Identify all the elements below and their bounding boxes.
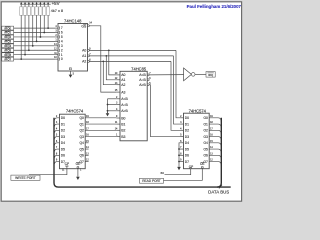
svg-text:GS: GS [81,24,87,28]
svg-text:1: 1 [61,53,63,57]
svg-text:D3: D3 [185,135,189,139]
svg-text:Q1: Q1 [79,122,84,126]
node IRQ2 label [2,35,14,39]
U2 pin B3 (1) [116,136,120,138]
data bus wire (left vertical + bottom horizontal) [54,118,231,187]
svg-text:A0: A0 [82,49,86,53]
svg-text:EI: EI [69,67,72,71]
svg-text:A1: A1 [121,78,125,82]
wire READ PORT strobe to U4 OE [164,168,203,180]
U2 pin A<B (2) [116,98,120,100]
comparator 74HC85 U2 [120,71,147,141]
svg-text:O4: O4 [203,141,208,145]
svg-text:D3: D3 [61,135,65,139]
svg-text:D2: D2 [185,129,189,133]
svg-text:Q4: Q4 [79,141,84,145]
svg-text:D6: D6 [185,154,189,158]
svg-text:74HC574: 74HC574 [189,108,207,113]
wire WRITE PORT strobe to U3 CP [29,166,67,175]
resistor R4 (4k7 pull-up) [32,2,34,5]
wire U4 O3 to data bus [209,137,221,142]
resistor R2 (4k7 pull-up) [24,2,26,5]
U2 pin A3 (15) [116,91,120,93]
op 74HC148 priority encoder U1 [58,24,88,72]
wire U2 A<B to inverter U5 [149,74,183,76]
svg-text:D0: D0 [185,116,189,120]
svg-text:B1: B1 [121,122,125,126]
U2 pin B2 (14) [116,129,120,131]
wire U4 O4 to data bus [209,143,221,148]
U1 input pin 2 (5) [56,36,58,38]
svg-text:D7: D7 [185,160,189,164]
svg-text:Paul Fellingham 21/6/2007: Paul Fellingham 21/6/2007 [187,4,242,9]
svg-text:D4: D4 [61,141,65,145]
svg-text:D1: D1 [61,122,65,126]
U2 pin A2 (13) [116,84,120,86]
U3 pin D4 (6) [54,143,60,148]
node IRQ1 label [2,31,14,35]
svg-text:A2: A2 [82,60,86,64]
svg-text:74HC148: 74HC148 [64,18,82,23]
wire U4 O1 to data bus [209,124,221,129]
ground at U3 OE [77,168,79,177]
svg-text:A<B: A<B [121,97,128,101]
U4 pin D6 (8) [181,154,184,156]
svg-text:O3: O3 [203,135,208,139]
wire U2 A>B to U4 D3 [149,85,180,137]
wire U3 Q1 to U2 B1 [85,123,116,125]
svg-text:D5: D5 [61,147,65,151]
U2 pin A>B (4) [116,110,120,112]
node IRQ3 label [2,39,14,43]
svg-text:74HC574: 74HC574 [66,108,84,113]
junction IRQ7/pull-up [20,58,22,60]
svg-text:A>B: A>B [139,83,146,87]
U2 pin A=B (3) [116,104,120,106]
svg-text:Q2: Q2 [79,129,84,133]
wire IRQ6 to U1 input [14,54,56,56]
junction IRQ1/pull-up [43,32,45,34]
junction IRQ3/pull-up [36,40,38,42]
node IRQ7 label [2,57,14,61]
wire U4 O2 to data bus [209,130,221,135]
svg-text:A3: A3 [121,90,125,94]
svg-text:D6: D6 [61,154,65,158]
data bus entry slash [219,185,222,189]
wire IRQ2 to U1 input [14,36,56,38]
svg-text:D4: D4 [185,141,189,145]
U4 pin D4 (6) [181,142,184,144]
svg-text:5: 5 [61,35,63,39]
node READ PORT label [140,178,164,183]
svg-text:O2: O2 [203,129,208,133]
svg-text:+5V: +5V [52,1,60,6]
svg-text:Q6: Q6 [79,154,84,158]
node IRQ0 label [2,26,14,30]
wire net 60 to U4 CP [165,169,191,175]
wire IRQ7 to U1 input [14,58,56,60]
flip-flop 74HC574 U4 (read port) [184,113,210,169]
wire GS to U2 A3 [89,26,116,92]
svg-text:DATA BUS: DATA BUS [208,190,229,195]
U1 input pin 4 (7) [56,27,58,29]
svg-text:O1: O1 [203,122,208,126]
U4 pin D1 (3) [181,123,184,125]
U1 input pin 1 (4) [56,40,58,42]
U2 pin B1 (11) [116,123,120,125]
resistor R5 (4k7 pull-up) [35,2,37,5]
data bus wire (right vertical) [217,118,221,187]
ground at U2 cascade [107,111,109,113]
U4 pin D0 (2) [181,117,184,119]
wire U1 A2 to U2 and to U4 D2 [89,60,171,62]
frame border [1,2,241,201]
wire U3 Q2 to U2 B2 [85,129,116,131]
wire U5 output to IRQ [195,73,206,75]
junction IRQ0/pull-up [47,27,49,29]
resistor R1 (4k7 pull-up) [20,2,22,5]
svg-text:IRQ: IRQ [208,73,214,77]
svg-text:WRITE PORT: WRITE PORT [15,176,36,180]
U3 pin D2 (4) [54,130,60,135]
U4 pin D3 (5) [181,136,184,138]
U3 pin D0 (2) [54,118,60,123]
junction IRQ6/pull-up [24,54,26,56]
svg-text:Q0: Q0 [79,116,84,120]
svg-text:4k7 x 8: 4k7 x 8 [51,9,63,13]
svg-text:A0: A0 [121,73,125,77]
svg-text:D1: D1 [185,122,189,126]
svg-text:2: 2 [61,48,63,52]
U3 pin D7 (9) [54,162,60,167]
resistor R7 (4k7 pull-up) [43,2,45,5]
svg-text:D0: D0 [61,116,65,120]
svg-text:74HC85: 74HC85 [131,66,147,71]
wire U4 O6 to data bus [209,155,221,160]
node WRITE PORT label [11,175,40,180]
svg-text:B3: B3 [121,135,125,139]
svg-text:A2: A2 [121,83,125,87]
resistor R3 (4k7 pull-up) [28,2,30,5]
ground at U1 EI [70,71,72,75]
wire IRQ3 to U1 input [14,40,56,42]
wire U4 D4-D7 common tie [179,143,181,167]
U3 pin D1 (3) [54,124,60,129]
junction IRQ2/pull-up [40,36,42,38]
svg-text:A1: A1 [82,54,86,58]
svg-text:4: 4 [61,39,63,43]
svg-text:A>B: A>B [121,109,128,113]
U4 pin D7 (9) [181,161,184,163]
wire IRQ1 to U1 input [14,32,56,34]
svg-text:6: 6 [61,31,63,35]
U1 input pin 11 (1) [56,54,58,56]
U1 input pin 13 (3) [56,45,58,47]
wire U4 O5 to data bus [209,149,221,154]
resistor R8 (4k7 pull-up) [47,2,49,5]
U3 pin D5 (7) [54,149,60,154]
U1 input pin 12 (2) [56,49,58,51]
U1 input pin 3 (6) [56,32,58,34]
U4 pin D5 (7) [181,148,184,150]
U2 pin A1 (12) [116,79,120,81]
svg-text:Q3: Q3 [79,135,84,139]
svg-text:A<B: A<B [139,73,146,77]
U4 pin D2 (4) [181,129,184,131]
junction IRQ4/pull-up [32,45,34,47]
inverter U5 [184,68,192,81]
svg-text:D5: D5 [185,147,189,151]
wire IRQ5 to U1 input [14,49,56,51]
svg-text:D2: D2 [61,129,65,133]
wire U1 A1 to U2 and to U4 D1 [89,55,173,57]
wire U4 O0 to data bus [209,118,221,123]
node IRQ4 label [2,44,14,48]
svg-text:7: 7 [61,26,63,30]
wire IRQ0 to U1 input [14,27,56,29]
svg-text:0: 0 [61,57,63,61]
U2 pin B0 (9) [116,117,120,119]
flip-flop 74HC574 U3 (write port) [60,114,86,169]
U2 pin A0 (10) [116,74,120,76]
svg-text:O5: O5 [203,147,208,151]
U3 pin D3 (5) [54,137,60,142]
wire U1 A0 to U2 and to U4 D0 [89,49,176,51]
+5V rail wire [21,3,51,5]
svg-text:3: 3 [61,44,63,48]
junction IRQ5/pull-up [28,49,30,51]
ground at U4 D4-D7 [177,167,181,170]
svg-text:B2: B2 [121,129,125,133]
svg-text:O6: O6 [203,154,208,158]
node IRQ output label [206,72,215,78]
svg-text:READ PORT: READ PORT [142,179,161,183]
U1 input pin 10 (0) [56,58,58,60]
svg-text:A=B: A=B [139,78,146,82]
svg-text:A=B: A=B [121,103,128,107]
svg-text:60: 60 [161,171,165,175]
wire U3 Q0 to U2 B0 [85,117,116,119]
wire U3 Q3 to U2 B3 [85,136,116,138]
node IRQ6 label [2,53,14,57]
svg-text:B0: B0 [121,116,125,120]
wire IRQ4 to U1 input [14,45,56,47]
svg-text:Q5: Q5 [79,147,84,151]
svg-text:O0: O0 [203,116,208,120]
wire U4 O7 to data bus [209,162,221,167]
resistor R6 (4k7 pull-up) [39,2,41,5]
U3 pin D6 (8) [54,155,60,160]
wire U2 cascade tie [108,98,117,100]
node IRQ5 label [2,48,14,52]
